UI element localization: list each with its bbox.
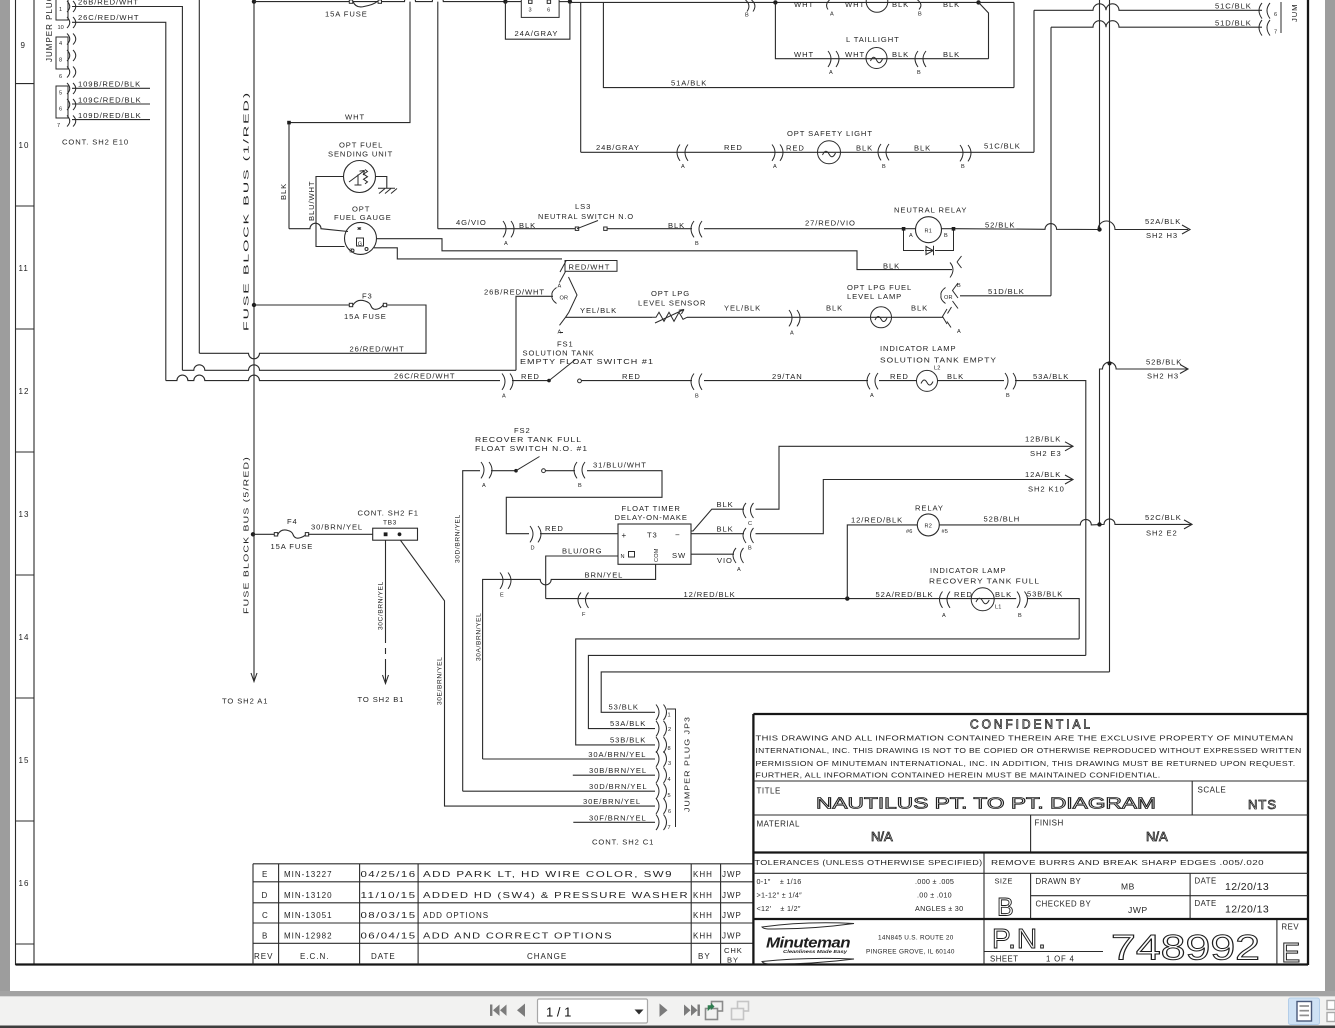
connector E on COM wire [500, 573, 511, 589]
wire 26/RED/WHT vertical (to F3 return) [198, 0, 200, 353]
junction dot at 24A right [568, 0, 572, 4]
go-last icon [684, 1005, 700, 1016]
previous page icon [517, 1004, 525, 1017]
top 15A fuse wire row [254, 0, 505, 2]
neutral relay R1 [902, 227, 906, 231]
connector F [578, 593, 589, 609]
Minuteman logo swooshes [762, 923, 854, 929]
viewer grey band under page [0, 991, 1335, 997]
53 return to JP3 [601, 672, 1109, 712]
wire after FS2 [546, 470, 576, 472]
safety light row 24B/GRAY [581, 151, 1034, 153]
24A/GRAY label bracket [505, 2, 570, 40]
timer minus diagonal branch [691, 509, 744, 531]
wire 51D/BLK from lamp connector [960, 295, 1051, 297]
wire 52/BLK to arrow 52A [955, 221, 1188, 230]
connector A before lamp [867, 373, 878, 389]
connector A before lamp L1 [940, 592, 951, 608]
fuse F4 [276, 530, 308, 538]
sending unit rheostat symbol [349, 171, 365, 183]
single page mode icon (active) [1289, 998, 1320, 1025]
wire F4 to TB3 [308, 533, 373, 535]
connector A on FS1 row [502, 374, 513, 390]
L taillight connector A [828, 51, 839, 67]
zone ticks [16, 84, 35, 944]
fuse F2 (top, cut) [351, 2, 380, 7]
L taillight lamp [866, 48, 887, 69]
wire diag + vertical to L taillight BLK return [979, 2, 989, 58]
connector pins 3 and 6 [529, 0, 532, 3]
long vertical 52/53-net (x=1109.5) [1109, 0, 1111, 672]
connector B (right) [960, 145, 971, 161]
wire 51C top row [1034, 4, 1262, 10]
sending unit right wire [376, 177, 387, 189]
fuel sending unit circle [344, 161, 376, 193]
neutral switch row 4G/VIO [438, 228, 575, 230]
title block outer border [753, 714, 1308, 965]
diode [925, 246, 934, 255]
svg-text:1 / 1: 1 / 1 [546, 1005, 571, 1020]
connector 51C pin 6 [1259, 3, 1270, 19]
wire 51A vertical [1013, 2, 1015, 87]
jumper plug JP pin housing boxes [56, 0, 68, 118]
wire 26B row (to x516) [182, 365, 516, 371]
relay R2 [917, 514, 939, 536]
vertical 51D (x=1051) [1050, 27, 1052, 296]
53A return to JP3 [588, 655, 1085, 728]
tolerance lines [757, 877, 964, 913]
wire RED to lamp [879, 380, 917, 382]
junction dot bus1 top [252, 0, 256, 4]
off-page arrow 52B/BLK SH2 H3 [1180, 365, 1188, 374]
wire from connector to junction [559, 1, 570, 3]
R taillight clipped labels [794, 0, 960, 9]
revision table [253, 864, 753, 965]
relay diode loop [904, 231, 954, 251]
off-page arrow 52C/BLK SH2 E2 [1184, 520, 1192, 529]
connector B after lamp [1005, 373, 1016, 389]
dropdown caret [635, 1010, 644, 1015]
OR connector cluster (26B to sensor) [552, 277, 577, 313]
wire 24B/GRAY drop vertical [580, 2, 582, 152]
fuse block bus 1 (vertical, x=254) [253, 2, 255, 676]
connector B on minus wire [743, 528, 754, 543]
timer NO wire BLU/ORG [546, 556, 618, 599]
wire to FS2 switch [491, 470, 516, 472]
RED/WHT boxed label with connector [565, 261, 617, 272]
next view icon (disabled) [732, 1002, 749, 1020]
connector C on diag branch [743, 503, 754, 518]
continuous mode icon (clipped) [1327, 1001, 1335, 1022]
viewer grey right strip [1325, 0, 1335, 996]
title block inner rules [753, 781, 1308, 965]
R taillight right chevrons (cut) [827, 0, 921, 10]
revision row B [262, 932, 742, 941]
wire 53A/BLK to down corner [1015, 381, 1086, 656]
gauge internals [351, 227, 368, 252]
revision row E [262, 870, 742, 879]
lamp row end connector pin [943, 307, 952, 328]
junction dot F3 on bus [252, 303, 256, 307]
wire 30C TO SH2 B1 arrow [385, 540, 387, 654]
page right border [1307, 0, 1309, 965]
revision row D [262, 891, 742, 900]
53B return to JP3 [576, 639, 1079, 745]
R taillight lamp (clipped) [866, 0, 888, 12]
wire 52B vertical segment and arrow row [1100, 362, 1189, 524]
FS2 row [463, 471, 480, 792]
wire 26B/RED/WHT to OR connector [516, 296, 553, 370]
timer SW wire VIO [691, 553, 734, 555]
wire 12A/BLK up and to arrow [756, 480, 1074, 534]
wire 52B/BLH to 52C arrow [939, 519, 1192, 525]
float switch FS1 [547, 379, 551, 383]
connector B FS2 [574, 462, 585, 478]
connector A on lamp row [789, 310, 800, 326]
wire 30F stub to JP3 [573, 821, 655, 823]
connector B after FS1 [691, 374, 702, 390]
wire top row continues right [570, 1, 979, 3]
jumper plug JP3 chevrons [656, 705, 667, 831]
jumper plug JP pin numbers [57, 7, 64, 129]
wire 26C row to FS1 [166, 375, 500, 380]
wire BLK into gauge (hop over BLU/WHT) [289, 223, 348, 231]
safety light lamp [818, 141, 841, 164]
revision row C [262, 911, 742, 920]
wire 30E row to JP3 [401, 540, 656, 806]
connector A FS2 [481, 462, 492, 478]
revision header row [254, 952, 711, 961]
relay R2 branch vertical [847, 525, 917, 599]
gauge right wire A (to relay area) [377, 239, 953, 270]
indicator lamp L2 [917, 370, 938, 391]
LPG lamp row [687, 316, 943, 318]
junction dot F4 on bus [251, 532, 255, 536]
wire to FS1 switch [512, 380, 549, 382]
L taillight connector B [915, 51, 926, 67]
junction dot at 24A connector left [503, 0, 507, 4]
float switch FS2 [514, 469, 518, 473]
gauge bottom wire B (to RED/WHT connector) [374, 248, 562, 259]
ground symbol [378, 188, 397, 193]
connector B [691, 221, 702, 237]
next page icon [660, 1004, 668, 1017]
junction dot relay branch [845, 596, 849, 600]
junction dot L taillight branch [773, 0, 777, 4]
connector box above 24A/GRAY [521, 0, 559, 17]
wire YEL/BLK from OR connector to sensor [566, 316, 653, 318]
viewer grey left strip [0, 0, 10, 996]
L taillight row [775, 2, 988, 58]
jumper plug JP pin chevrons [67, 1, 76, 127]
wire 31/BLU/WHT [506, 471, 662, 534]
off-page arrow 12A/BLK SH2 K10 [1065, 475, 1073, 484]
connector A on SW wire [733, 548, 744, 563]
wire top row to 24A connector [505, 1, 521, 3]
fuse F3 row [254, 304, 351, 306]
wire after FS1 [582, 380, 693, 382]
toolbar dark bottom bar [0, 1026, 1335, 1028]
wire RED to timer [540, 533, 618, 535]
connector A on 4G row [503, 221, 514, 237]
indicator lamp L1 [971, 588, 994, 611]
previous view icon [706, 1002, 723, 1020]
neutral switch LS3 [575, 227, 578, 230]
vertical 51C (x=1034) [1033, 10, 1035, 152]
wire after neutral switch [607, 228, 692, 230]
connector D on timer + row [530, 526, 541, 542]
jumper plug JP3 bracket [667, 709, 676, 827]
connector pin B end of BLK wire [950, 256, 962, 278]
go-first icon [490, 1005, 507, 1016]
wire 30B stub to JP3 [573, 774, 655, 776]
off-page arrow 52A/BLK SH2 H3 [1182, 225, 1190, 234]
fuse F3 [351, 300, 385, 309]
LPG level sensor [652, 312, 687, 321]
connector B [878, 144, 889, 160]
wire 27/RED/VIO [704, 228, 904, 230]
wire 12B/BLK up and to arrow [756, 446, 1074, 509]
OR connector cluster (LPG lamp) [941, 283, 958, 309]
bus1 arrowhead TO SH2 A1 [251, 673, 257, 682]
confidential paragraph [756, 736, 1302, 780]
wire R row to 51A corner [979, 1, 1015, 3]
fuse F4 row [253, 533, 276, 535]
timer COM wire BRN/YEL [483, 564, 656, 759]
wire 51A/BLK bottom row [603, 2, 1014, 87]
junction dot R taillight right [976, 0, 980, 4]
page number box [538, 999, 648, 1023]
L taillight labels [794, 50, 960, 59]
wire 30D row to JP3 [463, 790, 655, 792]
jumper plug JP2 bracket (right) [1280, 2, 1282, 33]
connector A (left) [677, 145, 688, 161]
WHT branch row [289, 2, 410, 229]
connector B after L1 [1017, 592, 1028, 608]
connector A (right) [772, 145, 783, 161]
connector 51D pin 7 [1259, 20, 1270, 36]
wire F3 out and return 26/RED/WHT [199, 305, 426, 359]
long vertical 52-net (x=1099.5 upper) [1099, 0, 1101, 230]
drawing border left zone column [15, 0, 17, 965]
pdf toolbar background [0, 997, 1335, 1027]
page bottom border [16, 963, 1309, 965]
wire after lamp [938, 380, 1005, 382]
zone numbers [19, 41, 30, 888]
timer minus straight wire BLK [691, 533, 744, 535]
off-page arrow 12B/BLK SH2 E3 [1065, 442, 1073, 451]
sending unit left wire / BLU/WHT drop [316, 177, 345, 247]
wire 53B/BLK corner [1027, 599, 1079, 639]
wire 30A row to JP3 [483, 758, 655, 760]
wire 12/RED/BLK row [546, 598, 1017, 600]
wire 29/TAN [704, 380, 868, 382]
float timer T3 box [618, 524, 691, 564]
vertical 4G/VIO feed [437, 2, 439, 229]
jumper plug JP3 pin numbers [668, 713, 672, 832]
LPG level lamp [871, 307, 892, 328]
wire 51D top row [1051, 21, 1262, 28]
fuel gauge circle [345, 222, 377, 254]
R taillight connector marks (cut at top) [746, 0, 755, 12]
terminal block TB3 [373, 528, 418, 540]
